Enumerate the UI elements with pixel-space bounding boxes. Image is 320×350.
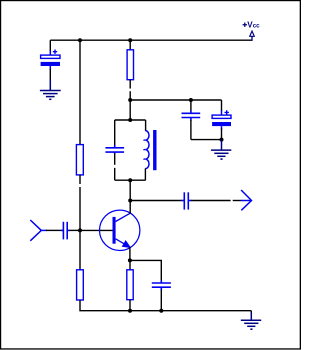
power +Vcc xyxy=(243,21,261,41)
resistor R1 xyxy=(76,145,83,175)
wire tank top xyxy=(115,119,146,121)
wire top rail xyxy=(50,39,252,41)
wire emitter to C6 xyxy=(130,260,161,280)
wire tank bottom to collector xyxy=(129,180,131,200)
ground G2 xyxy=(211,140,231,160)
wire C3/C4 bottom link xyxy=(191,139,222,141)
node rail/left column xyxy=(78,38,82,42)
node C6 rail xyxy=(159,309,163,313)
node rail/tank column xyxy=(128,38,132,42)
wire C3 bottom stub xyxy=(190,120,192,140)
wire emitter stub xyxy=(129,247,131,260)
inductor L1 xyxy=(143,131,149,169)
wire mid tap to C4 xyxy=(130,99,221,101)
wire left column lower / bottom rail xyxy=(80,300,251,311)
node mid tap xyxy=(128,98,132,102)
node tank bottom xyxy=(128,178,132,182)
wire R3 bottom stub xyxy=(129,300,131,311)
wire left column upper xyxy=(79,40,81,145)
node C3 tap xyxy=(189,98,193,102)
resistor R4 xyxy=(127,50,133,80)
input port xyxy=(30,220,47,241)
wire R4 to mid tap xyxy=(129,91,131,100)
wire tank right lower xyxy=(144,168,146,180)
wire collector stub xyxy=(129,201,131,214)
svg-text:Vcc: Vcc xyxy=(247,21,260,30)
wire R3 top stub xyxy=(129,260,131,270)
wire input to C2 xyxy=(46,229,62,231)
wire C4 bottom stub xyxy=(221,129,223,140)
wire C4 top drop xyxy=(221,100,223,111)
wire ground drop xyxy=(250,311,252,314)
ground G3 xyxy=(241,313,261,330)
capacitor C2 xyxy=(61,222,70,240)
transistor Q1 xyxy=(100,210,140,250)
wire left column middle a xyxy=(79,175,81,184)
capacitor C1 (electrolytic) xyxy=(41,50,60,71)
wire output mid xyxy=(191,200,230,202)
capacitor C3 xyxy=(182,110,201,120)
resistor R2 xyxy=(77,270,84,300)
node R3 rail xyxy=(128,309,132,313)
wire output left xyxy=(130,200,181,202)
wire tank right upper xyxy=(145,120,147,131)
node C4 ground xyxy=(220,138,224,142)
node tank top xyxy=(128,118,132,122)
wire C3 top stub xyxy=(190,100,192,111)
node collector/output xyxy=(128,199,132,203)
ground G1 xyxy=(40,80,61,100)
wire C6 bottom stub xyxy=(160,290,162,311)
wire tank left lower a xyxy=(114,153,116,164)
wire output right xyxy=(233,200,242,202)
wire mid tap to tank top xyxy=(129,100,131,120)
wire base node to Q1 xyxy=(80,229,113,231)
wire left column middle b xyxy=(79,187,81,270)
capacitor C7 xyxy=(105,145,124,154)
wire C1 bottom stub xyxy=(49,69,51,80)
node base xyxy=(78,228,82,232)
inductor core bar xyxy=(153,130,156,170)
wire tank left lower b xyxy=(114,168,116,180)
node emitter xyxy=(128,258,132,262)
capacitor C4 (electrolytic) xyxy=(212,110,231,129)
capacitor C6 xyxy=(152,280,171,290)
wire R4 bottom lead xyxy=(129,80,131,89)
wire tank bottom xyxy=(115,179,146,181)
wire C2 to base node xyxy=(70,229,81,231)
capacitor C5 xyxy=(181,192,191,209)
wire C1 top stub xyxy=(49,40,51,51)
output port xyxy=(241,190,252,210)
wire tank left upper xyxy=(114,120,116,145)
wire rail to R4 xyxy=(129,40,131,50)
resistor R3 xyxy=(127,270,133,300)
